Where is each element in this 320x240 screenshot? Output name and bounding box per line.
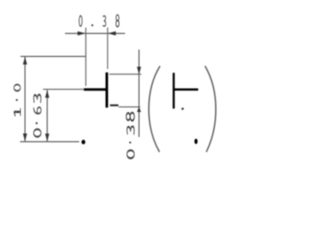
left parenthesis [149, 66, 160, 152]
right dimension line [138, 50, 140, 138]
right lower extension line (y=106.9) [119, 106, 141, 108]
symbol main horizontal bar [84, 88, 108, 90]
dimension text 0.38 (right, rotated) [126, 113, 134, 159]
1.0 arrowhead down [23, 134, 27, 142]
baseline (dimension origin line) [20, 141, 79, 143]
mini symbol origin dot [194, 139, 197, 144]
top dimension arrowhead right-pointing [78, 31, 86, 35]
extension line right (x=107.6) [107, 28, 109, 70]
0.63 dimension line [46, 90, 48, 142]
top dimension arrowhead left-pointing [108, 31, 116, 35]
symbol main vertical bar [106, 72, 109, 107]
origin dot on baseline [82, 140, 86, 145]
0.63 extension line (horizontal y=89.3) [43, 88, 84, 90]
right dim arrowhead up [137, 107, 141, 112]
mini symbol vertical bar [173, 73, 175, 109]
1.0 arrowhead up [23, 57, 27, 65]
1.0 top extension line (horizontal y=56.4) [21, 55, 86, 57]
right upper extension line (y=74.2) [109, 73, 141, 75]
dimension text 0.63 (rotated) [34, 95, 41, 137]
right dim arrowhead down [137, 67, 141, 75]
top dimension line [65, 32, 125, 34]
1.0 dimension line [24, 56, 26, 141]
mini symbol small dot [181, 108, 183, 110]
dimension text 0.38 (top, horizontal) [79, 15, 119, 27]
right lower extension dark dash [110, 104, 118, 106]
dimension text 1.0 (left, rotated) [14, 85, 20, 117]
extension line left (x=86) [85, 28, 87, 87]
right parenthesis [205, 66, 216, 152]
0.63 arrowhead down [45, 134, 49, 142]
0.63 arrowhead up [45, 90, 49, 98]
mini symbol horizontal bar [174, 88, 199, 90]
